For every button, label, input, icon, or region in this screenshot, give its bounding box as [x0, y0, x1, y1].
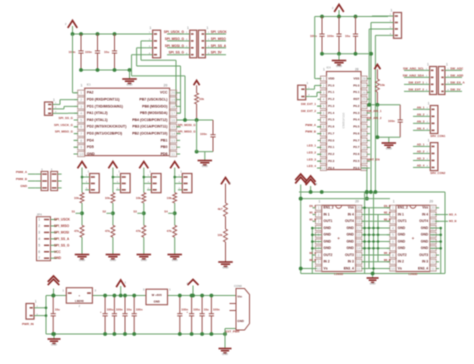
resistor R12b: [136, 225, 146, 237]
net label SW_A: [367, 109, 382, 113]
svg-text:S2: S2: [102, 209, 106, 213]
wire reset net 2: [367, 104, 400, 106]
op-amp IC6 L293D: [387, 199, 439, 276]
svg-text:P2.6: P2.6: [353, 152, 360, 156]
svg-text:10k: 10k: [199, 97, 204, 101]
wire sensor sig: [82, 182, 85, 184]
capacitor C3: [104, 34, 117, 70]
net label SW_EXT_1: [301, 102, 322, 106]
svg-text:1: 1: [318, 206, 320, 210]
wire to ground: [224, 334, 226, 349]
svg-text:GND: GND: [154, 299, 160, 303]
net label LED_2: [307, 150, 322, 154]
junction: [128, 68, 132, 72]
capacitor C11: [186, 296, 200, 335]
svg-text:PB1: PB1: [161, 138, 168, 142]
power VCC symbol VMOT2: [306, 176, 318, 192]
junction: [96, 32, 100, 36]
svg-text:GND: GND: [20, 184, 28, 188]
svg-text:P1.1: P1.1: [328, 90, 335, 94]
wire row link: [362, 214, 390, 216]
svg-text:L293D: L293D: [334, 272, 344, 276]
svg-text:1: 1: [35, 300, 37, 304]
svg-text:P2.0: P2.0: [328, 138, 335, 142]
wire tap: [133, 209, 143, 213]
junction: [173, 211, 177, 215]
svg-text:100n: 100n: [200, 132, 207, 136]
svg-text:11: 11: [322, 146, 326, 150]
wire rail to IC4 VDD: [367, 54, 372, 79]
junction: [320, 190, 324, 194]
wire JP5.2 down: [371, 22, 388, 192]
svg-text:20: 20: [171, 91, 175, 95]
wire JP5.4 down: [375, 35, 388, 192]
svg-text:5: 5: [38, 243, 40, 247]
svg-text:GND: GND: [421, 246, 429, 250]
net label SW_AIN1_SCL: [403, 66, 425, 70]
svg-text:10: 10: [317, 267, 321, 271]
net label M2_A: [309, 252, 316, 255]
svg-text:10k: 10k: [217, 233, 222, 237]
net label AD_3: [413, 156, 425, 160]
wire cap rail top: [315, 16, 388, 18]
net label LED_1: [307, 144, 322, 148]
svg-text:18: 18: [171, 105, 175, 109]
svg-text:GND: GND: [222, 352, 228, 356]
resistor R2: [375, 79, 385, 92]
wire row link: [362, 234, 390, 236]
net label LED_3: [307, 157, 322, 161]
net label SW_EXT_1: [404, 80, 425, 84]
svg-text:PA1 (XTAL2): PA1 (XTAL2): [87, 111, 108, 115]
svg-text:12: 12: [171, 146, 175, 150]
junction: [195, 118, 199, 122]
capacitor C12: [200, 296, 209, 335]
junction: [299, 197, 303, 201]
svg-text:25: 25: [362, 98, 366, 102]
svg-text:P0.4: P0.4: [353, 118, 360, 122]
svg-text:GND: GND: [223, 266, 229, 270]
svg-text:GND: GND: [237, 319, 245, 323]
svg-text:13: 13: [357, 253, 361, 257]
ground GND col4: [167, 255, 182, 263]
svg-text:1: 1: [393, 199, 395, 203]
wire JP3.2: [56, 106, 78, 108]
svg-text:20: 20: [429, 199, 433, 203]
wire VCC to IC1 pin1: [73, 34, 78, 93]
svg-text:2: 2: [392, 213, 394, 217]
svg-text:PA0 (XTAL1): PA0 (XTAL1): [87, 118, 108, 122]
power VCC symbol col3: [139, 162, 148, 193]
svg-text:PB6 (MISO/DO): PB6 (MISO/DO): [142, 104, 167, 108]
svg-text:17: 17: [171, 112, 175, 116]
ground GND1: [122, 79, 137, 87]
junction: [299, 267, 303, 271]
svg-text:GND: GND: [324, 226, 332, 230]
svg-text:GND: GND: [346, 233, 354, 237]
connector JP2A: [185, 26, 197, 58]
resistor R10a: [74, 193, 84, 203]
connector JP6B: [438, 63, 450, 95]
svg-text:4: 4: [392, 226, 394, 230]
svg-text:PB3 (OC1A/PCINT11): PB3 (OC1A/PCINT11): [132, 125, 167, 129]
wire VCC top rail: [73, 33, 153, 35]
svg-text:PB4 (OC1B/PCINT12): PB4 (OC1B/PCINT12): [132, 118, 167, 122]
wire top rail A: [46, 295, 66, 297]
svg-text:3: 3: [392, 220, 394, 224]
svg-text:AD_3: AD_3: [417, 156, 425, 160]
svg-text:AD_2: AD_2: [417, 149, 425, 153]
svg-text:OUT1: OUT1: [324, 219, 333, 223]
wire row link: [362, 227, 390, 229]
net label M3: [435, 212, 456, 216]
svg-text:5: 5: [323, 105, 325, 109]
svg-text:SPI_MISO_G: SPI_MISO_G: [55, 130, 74, 134]
junction: [439, 240, 442, 243]
svg-text:PD3 (INT1/OC2B/PCI): PD3 (INT1/OC2B/PCI): [87, 132, 122, 136]
svg-text:EN1_2: EN1_2: [398, 206, 408, 210]
svg-text:S3: S3: [133, 209, 137, 213]
svg-text:PB2 (OC0A/PCINT10): PB2 (OC0A/PCINT10): [132, 132, 167, 136]
wire sensor vcc: [144, 176, 147, 178]
connector SEN1: [85, 170, 99, 193]
svg-text:AN_3: AN_3: [417, 119, 425, 123]
svg-text:PWM_B: PWM_B: [305, 130, 316, 134]
junction: [223, 332, 227, 336]
junction: [112, 176, 115, 179]
junction: [79, 32, 83, 36]
junction: [142, 211, 146, 215]
net label AD_4: [413, 163, 425, 167]
svg-text:10u: 10u: [104, 50, 109, 54]
svg-text:GND: GND: [141, 258, 147, 262]
junction: [363, 207, 366, 210]
resistor R12a: [136, 193, 146, 203]
net label M1_B: [309, 218, 316, 221]
junction: [377, 234, 380, 237]
svg-text:2: 2: [318, 213, 320, 217]
wire cap bottom: [197, 151, 213, 153]
junction: [178, 294, 182, 298]
ground GND col3: [137, 255, 152, 263]
net label SPI_MISO: [210, 37, 226, 41]
svg-text:10k: 10k: [167, 196, 172, 200]
svg-text:PD4: PD4: [87, 138, 94, 142]
junction: [365, 190, 369, 194]
svg-text:+: +: [337, 236, 340, 241]
net label SPI_MOSI_G: [165, 44, 185, 48]
wire sensor vcc: [82, 176, 85, 178]
svg-text:EN1_2: EN1_2: [324, 206, 334, 210]
ground GND PWR: [48, 339, 61, 347]
resistor R20: [217, 203, 227, 217]
svg-text:1: 1: [187, 26, 189, 30]
svg-text:26: 26: [362, 91, 366, 95]
svg-text:OUT1: OUT1: [398, 219, 407, 223]
svg-text:M2_B: M2_B: [309, 259, 316, 262]
svg-text:9: 9: [392, 260, 394, 264]
svg-text:GND: GND: [54, 256, 62, 260]
net label AD_2: [413, 149, 425, 153]
svg-text:SPI_MOSI_G: SPI_MOSI_G: [178, 123, 197, 127]
net label M2_B: [384, 218, 391, 221]
junction: [372, 240, 375, 243]
svg-text:P0.2: P0.2: [353, 104, 360, 108]
net label SW_5V: [450, 87, 462, 91]
junction: [377, 247, 380, 250]
wire frame right: [444, 192, 446, 274]
svg-text:SPI_MISO: SPI_MISO: [54, 224, 70, 228]
svg-text:6: 6: [323, 111, 325, 115]
junction: [363, 247, 366, 250]
capacitor C8: [122, 296, 131, 335]
svg-text:16: 16: [362, 160, 366, 164]
svg-text:EXT_PWR: EXT_PWR: [226, 329, 241, 333]
wire Q1.1: [310, 85, 322, 89]
connector X2 power jack: [226, 284, 250, 333]
svg-text:PD5: PD5: [87, 145, 94, 149]
wire Q1.2: [310, 92, 322, 96]
wire top rail C: [168, 295, 237, 297]
svg-text:P1.5: P1.5: [328, 118, 335, 122]
net label AN_1: [413, 105, 425, 109]
svg-text:SRV_CON1: SRV_CON1: [430, 134, 445, 138]
svg-text:8: 8: [318, 253, 320, 257]
svg-text:20: 20: [355, 199, 359, 203]
ground GND2: [198, 161, 213, 169]
svg-text:14: 14: [322, 166, 326, 170]
junction: [439, 227, 442, 230]
svg-text:PB5 (MOSI/SDA): PB5 (MOSI/SDA): [140, 111, 167, 115]
svg-text:10k: 10k: [74, 196, 79, 200]
svg-text:P1.2: P1.2: [328, 97, 335, 101]
svg-text:19: 19: [431, 213, 435, 217]
wire down gnd: [377, 105, 388, 143]
wire mid: [174, 203, 176, 225]
junction: [113, 332, 117, 336]
wire motor rail 2: [301, 198, 390, 200]
svg-text:IN 3: IN 3: [422, 260, 428, 264]
svg-text:20: 20: [357, 206, 361, 210]
wire gnd stem: [372, 274, 374, 279]
svg-text:IN 4: IN 4: [348, 212, 354, 216]
junction: [132, 332, 136, 336]
svg-text:PD6: PD6: [161, 152, 168, 156]
net label SPI_SS_A: [210, 44, 226, 48]
svg-text:1: 1: [207, 26, 209, 30]
svg-text:IN 3: IN 3: [348, 260, 354, 264]
svg-text:18: 18: [357, 220, 361, 224]
junction: [143, 176, 146, 179]
svg-text:2: 2: [80, 98, 82, 102]
wire JP5.3 down: [369, 29, 388, 105]
wire IC4 P2.4 down: [361, 168, 367, 199]
svg-text:M2_A: M2_A: [384, 212, 391, 215]
junction: [51, 332, 55, 336]
net label GND: [20, 184, 35, 188]
voltage regulator IC3: [143, 288, 171, 305]
svg-text:GND: GND: [127, 83, 133, 87]
svg-text:SPI_MISO_G: SPI_MISO_G: [165, 37, 185, 41]
net label EN_A: [309, 205, 316, 208]
svg-text:GND: GND: [346, 246, 354, 250]
svg-text:M4_A: M4_A: [384, 252, 391, 255]
wire ladder v2: [368, 208, 370, 269]
svg-text:GND: GND: [87, 152, 95, 156]
svg-text:P1.4: P1.4: [328, 111, 335, 115]
net label row7: [55, 130, 78, 134]
wire to ground: [197, 120, 205, 161]
junction: [371, 272, 375, 276]
wire gnd stem: [53, 334, 55, 339]
svg-text:20: 20: [362, 132, 366, 136]
op-amp IC4 MCU: [318, 65, 371, 170]
svg-text:SPI_SS_G: SPI_SS_G: [169, 51, 185, 55]
junction: [299, 197, 303, 201]
svg-text:GND: GND: [398, 233, 406, 237]
junction: [119, 294, 123, 298]
svg-text:EN_B: EN_B: [384, 205, 391, 208]
svg-text:P0.1: P0.1: [353, 90, 360, 94]
net label M4_A: [384, 252, 391, 255]
wire left loop: [45, 296, 47, 335]
svg-text:4: 4: [38, 237, 40, 241]
power VCC symbol PWR1: [48, 276, 60, 296]
svg-text:1: 1: [427, 63, 429, 67]
svg-text:3: 3: [38, 230, 40, 234]
net label EN_B: [384, 205, 391, 208]
svg-text:47k: 47k: [105, 229, 110, 233]
svg-text:GND: GND: [421, 233, 429, 237]
wire cap bottom rail: [81, 69, 130, 71]
capacitor C6: [100, 296, 114, 335]
svg-text:PWR_IN: PWR_IN: [22, 322, 34, 326]
ground GND4: [332, 61, 347, 69]
svg-text:14: 14: [171, 132, 175, 136]
net label GND: [54, 256, 62, 260]
svg-text:SPI_USCK_G: SPI_USCK_G: [54, 123, 74, 127]
svg-text:GND: GND: [398, 246, 406, 250]
net label M1_A: [309, 212, 316, 215]
capacitor C1: [69, 34, 84, 70]
wire bottom rail: [46, 333, 225, 335]
ground GND5: [382, 143, 397, 151]
wire frame left: [300, 199, 302, 274]
svg-text:17: 17: [357, 226, 361, 230]
net label VCC: [54, 250, 61, 254]
svg-text:P2.3: P2.3: [328, 159, 335, 163]
svg-text:SW_ADD: SW_ADD: [450, 73, 464, 77]
svg-text:11: 11: [171, 152, 175, 156]
svg-text:M2_B: M2_B: [384, 218, 391, 221]
svg-text:18: 18: [431, 220, 435, 224]
wire to ground: [81, 237, 83, 254]
svg-text:2: 2: [323, 84, 325, 88]
junction: [123, 294, 127, 298]
wire: [225, 217, 227, 230]
svg-text:100u: 100u: [193, 308, 200, 312]
power VCC symbol col2: [108, 162, 117, 193]
junction: [337, 15, 341, 19]
svg-text:P3.0: P3.0: [353, 166, 360, 170]
svg-text:AD_1: AD_1: [417, 142, 425, 146]
junction: [311, 240, 314, 243]
connector SV1: [35, 167, 48, 190]
svg-text:22: 22: [362, 118, 366, 122]
wire IC1 pin9 stub: [74, 146, 78, 148]
wire ladder v4: [377, 215, 379, 262]
svg-text:OUT4: OUT4: [419, 219, 428, 223]
svg-text:18: 18: [362, 146, 366, 150]
svg-text:GND: GND: [421, 239, 429, 243]
wire to ground: [112, 237, 114, 254]
wire JP1.4 to IC1 pin15: [132, 55, 186, 120]
svg-text:SPI_MOSI_G: SPI_MOSI_G: [165, 44, 185, 48]
capacitor C21: [327, 17, 342, 54]
svg-text:P0.3: P0.3: [353, 111, 360, 115]
svg-text:GND: GND: [202, 164, 208, 168]
svg-text:OUT2: OUT2: [398, 253, 407, 257]
junction: [377, 227, 380, 230]
svg-text:SPI_MISO: SPI_MISO: [211, 37, 227, 41]
svg-text:5: 5: [80, 118, 82, 122]
svg-text:PD2 (INT0/XCK/CKOUT): PD2 (INT0/XCK/CKOUT): [87, 125, 126, 129]
connector Q1 crystal: [298, 81, 311, 100]
svg-text:SRV_CON2: SRV_CON2: [430, 171, 445, 175]
net label SPI_5V: [210, 51, 226, 55]
wire ladder v1: [364, 192, 366, 274]
svg-text:1: 1: [392, 206, 394, 210]
resistor R13b: [167, 225, 177, 237]
junction: [132, 294, 136, 298]
wire tap: [102, 209, 112, 213]
svg-text:17: 17: [362, 153, 366, 157]
svg-text:M1_B: M1_B: [309, 218, 316, 221]
junction: [369, 52, 373, 56]
svg-text:GND: GND: [398, 239, 406, 243]
svg-text:PB7 (USCK/SCL): PB7 (USCK/SCL): [139, 98, 167, 102]
junction: [195, 150, 199, 154]
capacitor C2: [85, 34, 100, 70]
net label AD_1: [413, 142, 425, 146]
wire gnd stub: [312, 227, 321, 229]
svg-text:VSS: VSS: [353, 76, 359, 80]
capacitor C5: [51, 296, 60, 335]
junction: [79, 68, 83, 72]
junction: [363, 227, 366, 230]
svg-text:15: 15: [171, 125, 175, 129]
svg-text:AN_4: AN_4: [417, 126, 425, 130]
svg-text:SW_EXT_1: SW_EXT_1: [408, 80, 424, 84]
svg-text:LM240: LM240: [75, 299, 84, 303]
svg-text:SW_AIN1_SCL: SW_AIN1_SCL: [403, 66, 424, 70]
junction: [376, 135, 380, 139]
svg-text:EN3_4: EN3_4: [418, 266, 428, 270]
svg-text:P2.2: P2.2: [328, 152, 335, 156]
svg-text:P0.5: P0.5: [353, 125, 360, 129]
connector JP2B: [198, 26, 210, 58]
svg-text:IN 2: IN 2: [398, 260, 404, 264]
net label M2_B: [309, 259, 316, 262]
net label SW_EXT_2: [301, 109, 322, 113]
svg-text:LED_1: LED_1: [307, 144, 316, 148]
svg-text:AN_2: AN_2: [417, 112, 425, 116]
svg-text:P1.7: P1.7: [328, 131, 335, 135]
wire X1.1: [39, 307, 47, 309]
svg-text:12: 12: [322, 153, 326, 157]
net label SPI_SS_A: [54, 237, 70, 241]
connector SEN4: [178, 170, 192, 193]
